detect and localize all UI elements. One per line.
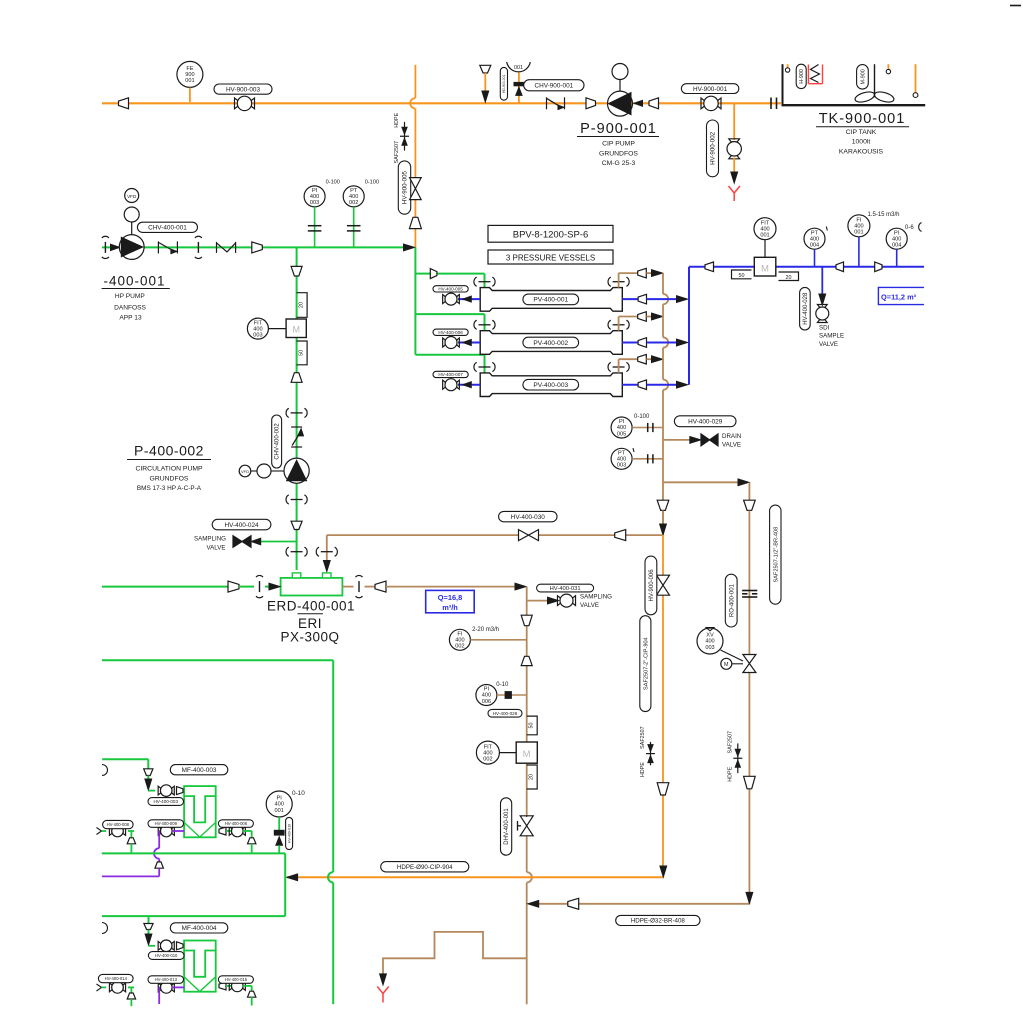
svg-text:-400-001: -400-001 <box>103 273 165 288</box>
valve HV-900-003 <box>235 98 238 109</box>
reducer 63-20 <box>291 266 302 276</box>
svg-text:HV-400-006: HV-400-006 <box>438 330 463 335</box>
valve HV-400-006 <box>443 338 446 347</box>
capsule HV-400-006 (filter) <box>218 820 253 828</box>
svg-text:2-20 m3/h: 2-20 m3/h <box>472 627 499 633</box>
wire concentrate riser brown <box>618 359 620 373</box>
svg-text:HV-400-026: HV-400-026 <box>493 711 518 716</box>
capsule HDPE-O32-BR-408 <box>616 915 700 925</box>
reducer pump suction <box>586 98 596 109</box>
node CIP drop branch with arrow at x=485 <box>480 65 491 73</box>
svg-text:HV-900-003: HV-900-003 <box>226 86 261 93</box>
tank dip tube 1 <box>787 64 789 68</box>
reducer HV-400-008 down <box>130 831 132 838</box>
reducer on CIP supply inlet <box>119 98 129 109</box>
svg-text:CHV-900-001: CHV-900-001 <box>534 82 573 89</box>
coupling feed PV-400-002 <box>479 324 491 326</box>
bracket size 50 <box>297 341 308 365</box>
reducer concentrate header bottom <box>657 500 669 510</box>
capsule HV-400-003 <box>148 798 184 806</box>
drain valve branch <box>663 439 691 441</box>
svg-text:001: 001 <box>185 78 194 84</box>
wire spare green feed y=660 <box>102 659 333 661</box>
capsule HV-400-014 <box>98 974 133 982</box>
wire concentrate riser brown <box>618 317 620 331</box>
svg-text:PV-400-001: PV-400-001 <box>533 297 568 304</box>
reducer permeate top run <box>705 262 714 272</box>
svg-text:006: 006 <box>482 699 491 705</box>
reducer XV line top <box>744 500 756 510</box>
svg-text:P-400-002: P-400-002 <box>134 443 204 459</box>
tank TK-900-001 wall <box>782 64 784 105</box>
wire concentrate header brown x=663 <box>662 273 664 294</box>
check valve CHV-400-002 <box>291 426 302 428</box>
svg-text:0-6: 0-6 <box>905 225 914 231</box>
capsule HV-400-009 <box>148 820 184 828</box>
svg-text:SAF2507: SAF2507 <box>394 141 400 163</box>
capsule RO-400-001 <box>725 574 737 627</box>
arrow into pump P-400-001 <box>111 244 120 250</box>
arrow into permeate header <box>677 296 688 303</box>
reducer above junction <box>409 217 421 228</box>
capsule HV-400-031 <box>537 584 594 592</box>
vessel PV-400-003 <box>480 373 622 397</box>
svg-text:004: 004 <box>810 242 819 248</box>
instrument valve PI-400-001 <box>274 830 284 835</box>
capsule small riser tag <box>500 67 507 100</box>
hop green vertical over CIP return <box>328 872 333 882</box>
bracket size 20 <box>297 293 308 318</box>
instrument FIT-400-001 <box>754 218 776 240</box>
capsule HV-900-001 <box>681 84 738 94</box>
reducer concentrate <box>638 354 647 364</box>
reducer permeate <box>638 338 646 348</box>
flex hose symbol <box>216 242 218 253</box>
svg-text:1000lt: 1000lt <box>852 139 871 146</box>
svg-text:0-100: 0-100 <box>326 179 340 185</box>
capsule HV-400-015 <box>218 976 253 984</box>
coupling concentrate PV-400-002 <box>613 324 625 326</box>
valve DHV-400-001 <box>520 816 533 826</box>
reducer after SDI tee <box>836 262 844 272</box>
svg-text:50: 50 <box>529 722 535 728</box>
valve HV-400-010 <box>158 941 161 950</box>
bracket size 50 <box>732 270 752 279</box>
pump P-400-002 (circulation) <box>239 465 251 477</box>
coupling concentrate PV-400-003 <box>613 366 625 368</box>
arrow CIP return into green header <box>287 874 298 881</box>
svg-text:CHV-400-002: CHV-400-002 <box>275 423 281 460</box>
capsule HV-900-006 <box>645 556 657 615</box>
svg-text:PV-400-002: PV-400-002 <box>533 340 568 347</box>
valve XV-400-003 <box>743 655 756 664</box>
reducer 63-20 ERD product <box>521 615 532 626</box>
svg-text:HDPE-Ø90-CIP-904: HDPE-Ø90-CIP-904 <box>397 864 453 871</box>
reducer into filter1 <box>177 787 184 795</box>
reducer vessel1 feed <box>430 269 437 279</box>
partial capsule crop left 1 <box>102 765 108 776</box>
svg-text:1.5-15 m3/h: 1.5-15 m3/h <box>868 212 900 218</box>
diaphragm seal PT-400-002 <box>347 225 361 227</box>
coupling feed PV-400-003 <box>479 366 491 368</box>
svg-text:SDI: SDI <box>819 325 830 332</box>
capsule HDPE-O90-CIP-904 <box>381 862 469 872</box>
svg-text:MF-400-003: MF-400-003 <box>182 767 217 774</box>
valve HV-400-030 <box>519 530 529 541</box>
svg-text:APP 13: APP 13 <box>119 315 142 322</box>
capsule MF-400-003 <box>170 765 228 775</box>
reducer orange x=663 <box>657 783 669 795</box>
svg-text:HDPE: HDPE <box>394 112 400 127</box>
arrow into junction with CIP drop <box>404 244 415 251</box>
capsule HV-400-028 <box>800 287 811 330</box>
wire ERD HP brine line y=535 <box>327 534 519 536</box>
svg-text:HV-400-014: HV-400-014 <box>105 976 128 981</box>
hop of vertical line over CIP header <box>410 98 415 108</box>
arrow into ERD <box>269 583 280 590</box>
vessel PV-400-001 <box>480 288 622 312</box>
capsule M-900-001 agitator tag <box>857 65 869 90</box>
svg-text:20: 20 <box>786 275 792 281</box>
capsule vertical right of PI-400-001 <box>286 817 293 849</box>
note box 3 PRESSURE VESSELS <box>488 250 613 264</box>
partial capsule crop left 2 <box>102 923 108 934</box>
capsule HV-400-008 <box>103 820 134 828</box>
valve HV-400-005 <box>443 295 446 304</box>
capsule HV-400-005 <box>433 286 468 292</box>
svg-text:HP PUMP: HP PUMP <box>115 293 146 300</box>
svg-text:001: 001 <box>854 230 863 236</box>
wire permeate header blue x=689 <box>688 267 690 385</box>
wire filter1 feed <box>102 758 148 760</box>
reducer concentrate <box>638 268 647 278</box>
svg-text:M: M <box>292 325 300 335</box>
reducer above sampling tee <box>291 521 302 529</box>
partial capsule at crop edge <box>919 223 922 232</box>
valve HV-900-005 <box>410 178 422 189</box>
arrow into concentrate header <box>652 356 663 363</box>
svg-text:DANFOSS: DANFOSS <box>114 304 146 311</box>
valve HV-400-009 group purple <box>159 830 161 832</box>
wire FIT-400-003 branch green <box>296 247 298 266</box>
reducer XV line bottom <box>744 776 756 789</box>
reducer permeate <box>638 294 646 304</box>
wire drop into ERD <box>326 535 328 560</box>
svg-text:HV-400-016: HV-400-016 <box>287 824 291 843</box>
valve HV-400-003 <box>158 786 161 795</box>
svg-text:HD-900-001: HD-900-001 <box>502 74 506 93</box>
wire green vertical x=333 <box>332 660 334 872</box>
wire ERD product brown <box>386 586 515 588</box>
svg-text:ERD-400-001: ERD-400-001 <box>267 599 355 614</box>
flow meter FIT-400-001 body <box>754 257 776 276</box>
capsule CHV-900-001 <box>524 80 584 91</box>
valve HV-900-002 <box>729 139 740 142</box>
wire concentrate riser brown <box>618 273 620 288</box>
flange at tank inlet <box>770 98 772 110</box>
arrow into concentrate header <box>652 313 663 320</box>
capsule HV-400-024 <box>212 519 271 530</box>
capsule HV-900-005 <box>398 161 410 214</box>
capsule HV-900-002 <box>707 120 719 177</box>
reducer concentrate <box>638 312 647 322</box>
svg-text:HV-900-002: HV-900-002 <box>710 131 717 165</box>
arrow into pump discharge <box>634 100 643 106</box>
reducer to 63 <box>291 373 302 383</box>
valve HV-900-003 label <box>214 84 272 94</box>
wire HP pump discharge green <box>102 246 404 248</box>
reducer into filter2 <box>177 942 184 950</box>
svg-text:HDPE: HDPE <box>727 766 733 781</box>
reducer purple <box>155 862 163 868</box>
svg-text:DHV-400-001: DHV-400-001 <box>504 808 510 845</box>
reducer filter outlet down <box>251 831 253 838</box>
svg-text:003: 003 <box>617 463 626 469</box>
filter MF-400-003 body <box>184 786 216 837</box>
capsule HV-400-013 <box>148 976 184 984</box>
valve HV-400-015 filter2 outlet <box>219 982 226 990</box>
pump P-400-001 (HP pump) <box>125 189 139 203</box>
orifice RO-400-001 <box>742 590 757 592</box>
svg-text:VALVE: VALVE <box>580 602 599 609</box>
svg-text:CHV-400-001: CHV-400-001 <box>148 225 187 232</box>
actuator M for XV-400-003 <box>721 658 732 669</box>
instrument PI-400-004 <box>886 228 907 249</box>
svg-text:50: 50 <box>299 350 305 356</box>
instrument PI-400-006 <box>476 685 497 706</box>
svg-text:SAMPLE: SAMPLE <box>819 333 844 340</box>
coupling below pump <box>291 499 303 501</box>
valve HV-400-031 sampling <box>557 596 560 606</box>
instrument FIT-400-003 <box>247 318 268 339</box>
capsule HV-400-029 <box>674 416 736 427</box>
valve HV-900-006 <box>657 575 670 585</box>
svg-text:BMS 17-3 HP A-C-P-A: BMS 17-3 HP A-C-P-A <box>137 485 202 492</box>
svg-text:MF-400-004: MF-400-004 <box>182 925 217 932</box>
reducer before PI-400-004 <box>875 262 882 272</box>
svg-text:50: 50 <box>739 273 745 279</box>
wire vessel2 feed drop <box>484 314 486 331</box>
capsule CHV-400-001 <box>137 222 197 232</box>
svg-text:004: 004 <box>892 242 901 248</box>
wire filter2 feed <box>148 916 150 923</box>
wire green second header y=916.1 <box>102 915 285 917</box>
valve HV-400-006 filter outlet <box>219 827 226 835</box>
wire brine drain to bottom <box>526 883 528 1005</box>
wire branch CHV-900-001 riser <box>518 73 520 104</box>
svg-text:0-10: 0-10 <box>496 682 509 688</box>
wire sample stub HV-400-005 <box>458 298 480 300</box>
capsule HV-400-006 <box>433 329 468 335</box>
tank dip tube 2 <box>887 64 889 69</box>
svg-text:VALVE: VALVE <box>819 341 838 348</box>
svg-text:TK-900-001: TK-900-001 <box>819 111 906 127</box>
reducer pump discharge <box>649 98 659 109</box>
note box BPV-8-1200-SP-6 <box>488 225 613 242</box>
reducer back to 63 <box>521 656 532 665</box>
instrument PT-400-004 <box>804 228 825 249</box>
svg-text:SAMPLING: SAMPLING <box>580 594 612 601</box>
arrow into permeate header <box>677 381 688 388</box>
svg-text:001: 001 <box>760 232 769 238</box>
capsule SAF2507-2-CIP-904 <box>640 616 651 712</box>
check valve after pump <box>157 241 159 253</box>
valve HV-400-007 <box>443 380 446 389</box>
svg-text:HV-400-028: HV-400-028 <box>803 292 809 325</box>
bracket size 20 FIT-400-002 <box>527 765 538 789</box>
filter MF-400-004 body <box>184 941 216 992</box>
wire XV line brown x=749 <box>748 510 750 655</box>
wire BR-408 horizontal <box>539 903 568 905</box>
instrument PT-400-002 <box>343 186 364 207</box>
tick mark near PT-400-004 <box>826 227 827 231</box>
capsule HV-400-007 <box>433 371 468 377</box>
reducer ERD outlet <box>375 581 386 592</box>
instrument PI-400-005 <box>611 417 632 438</box>
svg-text:HV-400-031: HV-400-031 <box>550 586 581 592</box>
svg-text:HV-400-005: HV-400-005 <box>438 286 463 291</box>
svg-text:KARAKOUSIS: KARAKOUSIS <box>839 149 884 156</box>
svg-text:HV-400-007: HV-400-007 <box>438 372 463 377</box>
svg-text:SAF2507: SAF2507 <box>640 726 646 748</box>
svg-text:BPV-8-1200-SP-6: BPV-8-1200-SP-6 <box>513 229 589 240</box>
note box Q=11,2 m3/h (clipped at crop) <box>878 287 924 304</box>
svg-text:20: 20 <box>529 774 535 780</box>
valve HV-400-008 group <box>97 828 102 835</box>
capsule H-900-001 heater tag <box>796 64 806 88</box>
svg-text:HV-400-003: HV-400-003 <box>153 799 178 804</box>
svg-text:0-100: 0-100 <box>634 414 650 420</box>
svg-text:M-900: M-900 <box>860 69 866 84</box>
agitator shaft and propeller <box>874 64 876 97</box>
valve HV-900-001 <box>701 98 704 109</box>
reducer BR-408 <box>568 898 579 909</box>
svg-text:002: 002 <box>349 200 358 206</box>
wire branch to XV line <box>663 481 738 483</box>
valve HV-400-014 group <box>97 984 102 991</box>
svg-text:005: 005 <box>617 431 626 437</box>
bracket size 50 FIT-400-002 <box>527 716 538 735</box>
svg-text:m³/h: m³/h <box>442 603 458 612</box>
reducer HP line <box>252 242 262 253</box>
wire CIP return orange y=877 <box>287 876 664 878</box>
arrow into permeate header <box>677 339 688 346</box>
svg-text:001: 001 <box>514 65 523 71</box>
reducer on ERD brine line <box>615 530 626 541</box>
arrow into concentrate header <box>652 270 663 277</box>
instrument FI-400-001 <box>848 215 870 237</box>
capsule CHV-400-002 <box>272 415 282 468</box>
svg-text:HDPE: HDPE <box>640 762 646 777</box>
instrument FE-900-001 <box>177 61 203 87</box>
flex coupling pump suction <box>104 242 106 253</box>
wire permeate stub blue <box>622 298 638 300</box>
vessel PV-400-002 <box>480 331 622 355</box>
wire vessel3 feed drop <box>484 355 486 374</box>
instrument PT-400-003 <box>611 448 632 469</box>
coupling concentrate PV-400-001 <box>613 281 625 283</box>
svg-text:Q=16,8: Q=16,8 <box>438 593 462 602</box>
wire sample stub HV-400-006 <box>458 342 480 344</box>
wire permeate stub blue <box>622 342 638 344</box>
svg-text:HV-400-010: HV-400-010 <box>155 953 178 958</box>
tick mark near PT-400-003 <box>633 448 634 452</box>
svg-text:20: 20 <box>299 302 305 308</box>
wire ERD feed green y=586.6 <box>102 586 228 588</box>
valve HV-400-028 SDI sample <box>817 304 827 307</box>
wire HV-900-002 branch <box>733 103 735 140</box>
svg-text:001: 001 <box>275 808 284 814</box>
flex coupling ERD feed <box>259 581 261 592</box>
svg-text:Q=11,2 m³: Q=11,2 m³ <box>881 293 917 302</box>
svg-text:RO-400-001: RO-400-001 <box>729 583 735 617</box>
valve HV-400-013 group purple <box>159 986 161 988</box>
wire sample stub HV-400-007 <box>458 384 480 386</box>
svg-text:003: 003 <box>253 332 262 338</box>
capsule MF-400-004 <box>170 923 228 933</box>
capsule HV-400-010 <box>148 952 184 960</box>
svg-text:VFD: VFD <box>127 194 137 199</box>
svg-text:HV-400-024: HV-400-024 <box>224 522 259 529</box>
note box Q=16,8 m3/h <box>426 590 475 612</box>
hops of concentrate header over permeate lines <box>663 294 668 304</box>
wire purple drop <box>158 831 160 848</box>
page crop dash top right <box>1010 5 1021 7</box>
spec break on XV line <box>737 743 739 773</box>
svg-text:SAF2507: SAF2507 <box>727 731 733 753</box>
wire green main header y=853.4 <box>102 852 285 854</box>
pump P-900-001 <box>612 64 628 80</box>
svg-text:HV-400-009: HV-400-009 <box>155 821 178 826</box>
svg-text:002: 002 <box>455 644 464 650</box>
svg-text:CIP TANK: CIP TANK <box>846 129 877 136</box>
drain symbol Y below HV-900-002 <box>729 186 740 193</box>
svg-text:P-900-001: P-900-001 <box>580 121 657 137</box>
svg-text:VFD: VFD <box>241 469 249 474</box>
reducer ERD feed <box>228 581 239 592</box>
svg-text:GRUNDFOS: GRUNDFOS <box>599 151 638 158</box>
capsule DHV-400-001 <box>501 798 512 855</box>
svg-text:HV-400-013: HV-400-013 <box>155 977 178 982</box>
instrument FI-400-002 <box>449 629 470 650</box>
svg-text:HV-900-006: HV-900-006 <box>649 569 655 602</box>
svg-text:M: M <box>761 263 769 274</box>
svg-text:003: 003 <box>310 200 319 206</box>
wire CIP/brine vertical orange x=663 <box>662 535 664 575</box>
diaphragm seal PI-400-003 <box>308 225 322 227</box>
wire CIP drop to RO feed (HV-900-005 line) <box>414 65 416 98</box>
svg-text:SAF2507-1/2"-BR-408: SAF2507-1/2"-BR-408 <box>773 527 779 583</box>
heater element red <box>807 65 809 84</box>
svg-text:H-900: H-900 <box>799 69 805 84</box>
svg-text:HV-400-006: HV-400-006 <box>225 821 248 826</box>
svg-text:VALVE: VALVE <box>722 442 741 449</box>
wire permeate stub blue <box>622 384 638 386</box>
capsule HV-400-026 <box>488 709 522 717</box>
svg-text:DRAIN: DRAIN <box>722 433 741 440</box>
svg-text:HV-400-008: HV-400-008 <box>107 822 130 827</box>
instrument PI-400-003 <box>304 186 325 207</box>
svg-text:003: 003 <box>705 645 714 651</box>
svg-text:3 PRESSURE VESSELS: 3 PRESSURE VESSELS <box>506 253 595 262</box>
coupling feed PV-400-001 <box>479 281 491 283</box>
reducer filter1 feed <box>144 769 153 776</box>
svg-text:0-100: 0-100 <box>365 179 379 185</box>
instrument PI-400-001 <box>266 791 292 817</box>
svg-text:SAMPLING: SAMPLING <box>194 536 226 543</box>
svg-text:002: 002 <box>483 756 492 762</box>
hop ERD product over CIP return <box>527 872 532 882</box>
